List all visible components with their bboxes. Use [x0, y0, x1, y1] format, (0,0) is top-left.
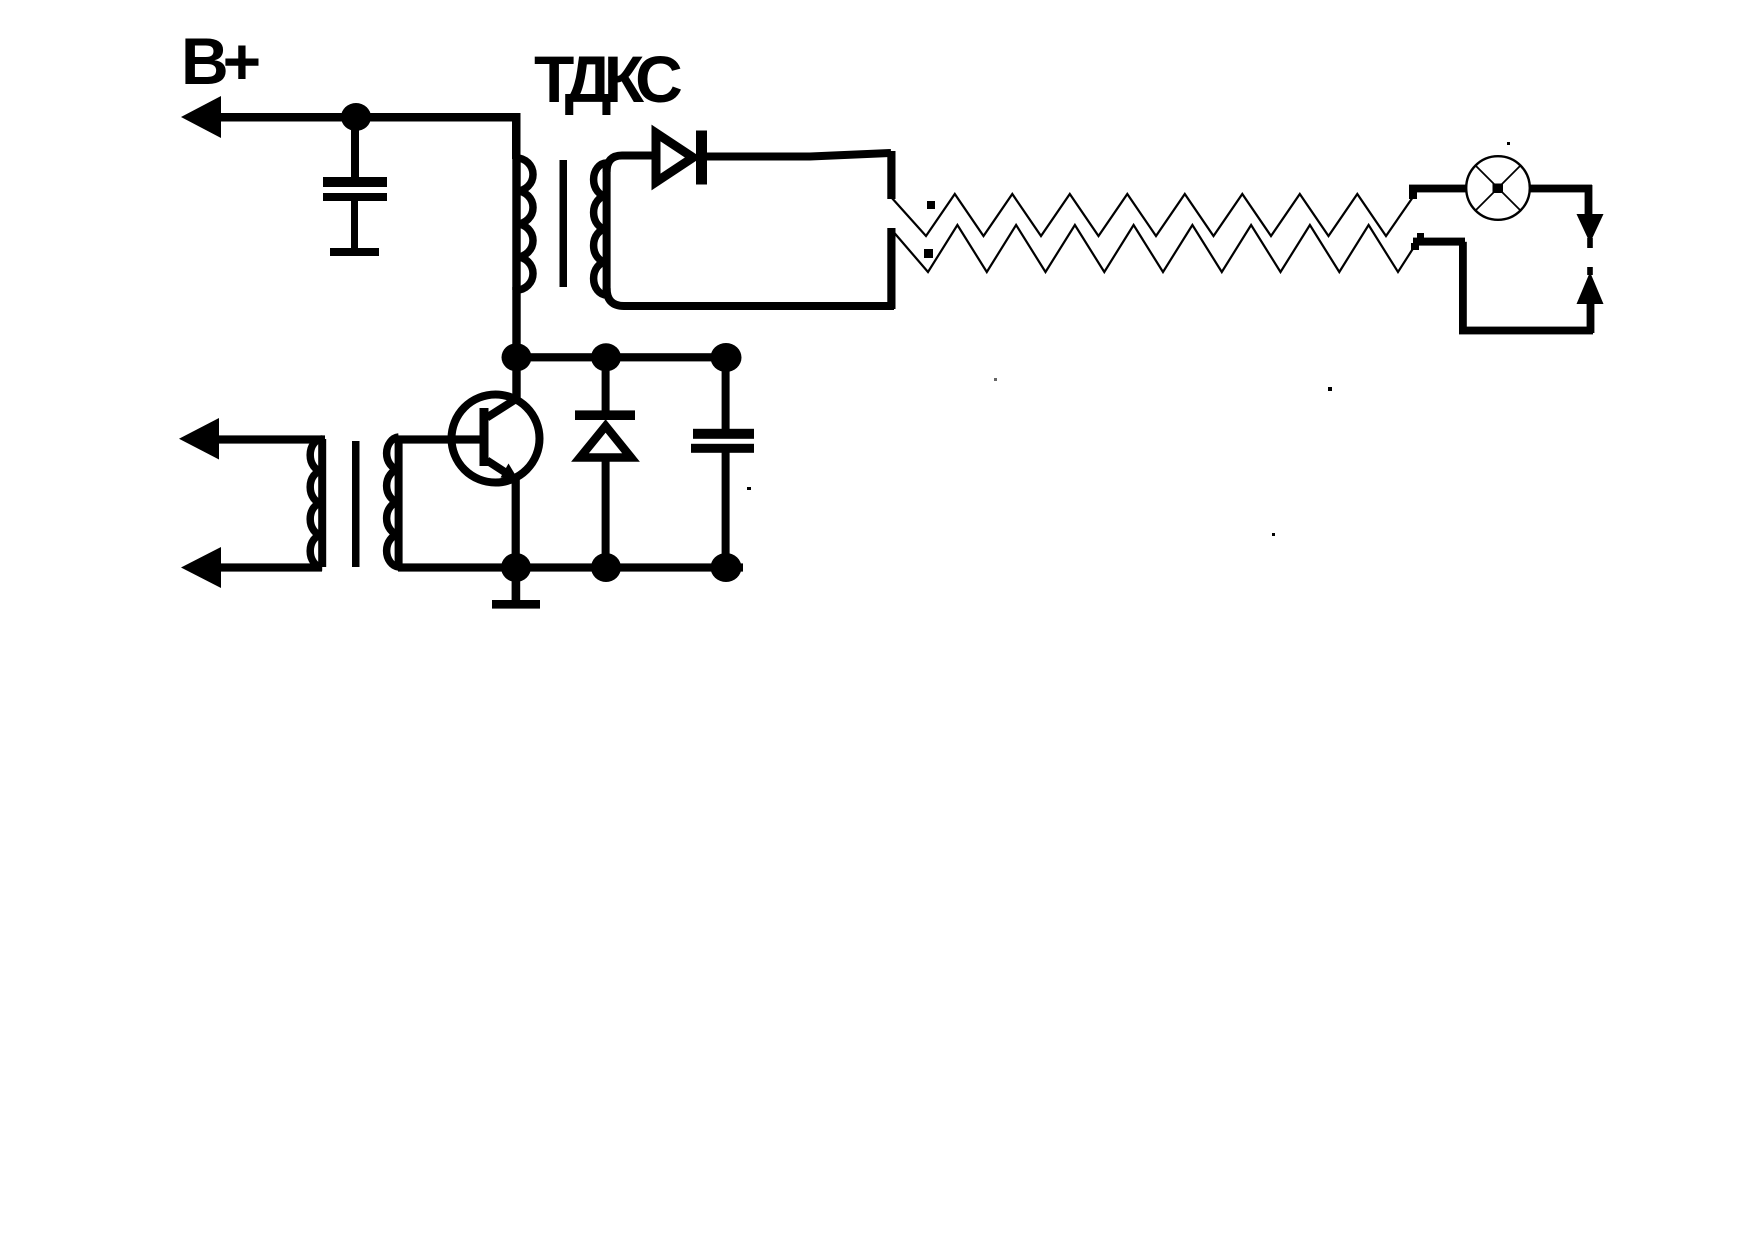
wire lamp left [1409, 185, 1467, 193]
capacitor C2 top plate [693, 429, 754, 439]
spark gap upper electrode [1577, 214, 1604, 243]
capacitor C1 bottom plate [323, 193, 387, 201]
wire lamp right [1529, 185, 1592, 193]
wire B+ rail [205, 113, 521, 122]
wire zigzag lower lead [1413, 238, 1465, 246]
svg-text:ТДКС: ТДКС [534, 42, 681, 116]
damper diode D2 [580, 426, 631, 458]
lamp [1466, 156, 1530, 220]
damper diode D2 top lead [602, 357, 610, 412]
transformer T2 right winding [395, 437, 403, 567]
chassis terminal bar [330, 248, 379, 256]
speck above lamp [1507, 142, 1510, 145]
wire T1 primary to collector [512, 287, 520, 398]
wire below gap [1587, 303, 1595, 333]
wire HV top corner drop [887, 151, 895, 199]
terminal arrow T2 lower [181, 547, 221, 588]
diode D1 [656, 133, 693, 182]
transformer T1 secondary winding [603, 164, 611, 294]
wire HV bottom corner [887, 228, 895, 309]
wire return left riser [1459, 242, 1467, 334]
wire D1 to HV lead [703, 153, 891, 157]
transformer T2 left winding [318, 439, 326, 567]
transformer T2 core [352, 441, 360, 567]
svg-text:В+: В+ [181, 24, 259, 98]
capacitor C1 top plate [323, 177, 387, 187]
junction node emitter bus [501, 553, 531, 582]
junction node damper top [591, 343, 621, 371]
transistor Q1 emitter stroke [487, 461, 511, 477]
junction node J1 [341, 103, 371, 131]
scan specks [994, 378, 997, 381]
HV resistor zigzag lower [891, 225, 1414, 272]
wire T2 lower [207, 563, 322, 571]
wire T2 to base [398, 435, 480, 443]
wire return bottom [1459, 327, 1593, 335]
junction node collector [502, 343, 532, 371]
node dot lower lead [924, 249, 933, 258]
spark gap lower electrode [1577, 272, 1604, 304]
transistor Q1 [452, 395, 540, 483]
capacitor C2 top lead [722, 357, 730, 430]
terminal arrow B+ [181, 96, 221, 138]
wire emitter to ground bus [512, 475, 520, 568]
top bus [512, 353, 730, 361]
junction node damper bottom [591, 553, 621, 582]
wire T1 primary top drop [512, 113, 521, 159]
junction node cap bottom [711, 553, 742, 582]
capacitor C2 bottom plate [691, 444, 754, 453]
ground stub [512, 567, 521, 601]
transistor Q1 base bar [480, 408, 489, 466]
capacitor C2 bottom lead [722, 452, 730, 568]
wire T2 upper [205, 435, 325, 443]
wire gap drop [1585, 185, 1593, 216]
bottom bus [398, 563, 743, 571]
transformer T1 core [560, 160, 568, 287]
ground bar [492, 600, 540, 609]
damper diode D2 cathode bar [575, 410, 635, 420]
diode D1 cathode bar [696, 131, 707, 185]
tap arrow lower [1411, 243, 1419, 250]
wire J1 to capacitor C1 [351, 120, 359, 178]
terminal arrow T2 upper [179, 418, 219, 460]
transformer T1 primary winding [512, 158, 520, 290]
junction node cap top [711, 343, 742, 372]
node dot upper lead [927, 201, 935, 209]
tap arrow upper [1409, 191, 1417, 199]
transistor Q1 collector stroke [487, 399, 516, 418]
wire C1 to chassis terminal [351, 201, 358, 249]
damper diode D2 bottom lead [602, 456, 610, 568]
HV resistor zigzag upper [891, 194, 1413, 236]
